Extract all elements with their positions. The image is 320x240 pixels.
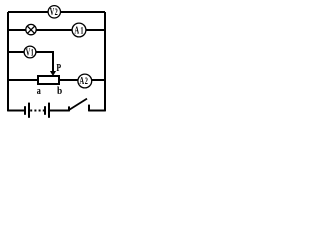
- svg-text:A: A: [74, 24, 79, 36]
- svg-text:V: V: [26, 47, 30, 58]
- svg-text:2: 2: [55, 7, 58, 17]
- svg-text:a: a: [37, 85, 41, 98]
- svg-text:1: 1: [80, 25, 83, 35]
- svg-text:2: 2: [85, 76, 88, 86]
- svg-text:V: V: [50, 7, 54, 18]
- svg-text:b: b: [57, 85, 62, 97]
- svg-text:P: P: [56, 62, 61, 73]
- svg-text:1: 1: [31, 47, 34, 57]
